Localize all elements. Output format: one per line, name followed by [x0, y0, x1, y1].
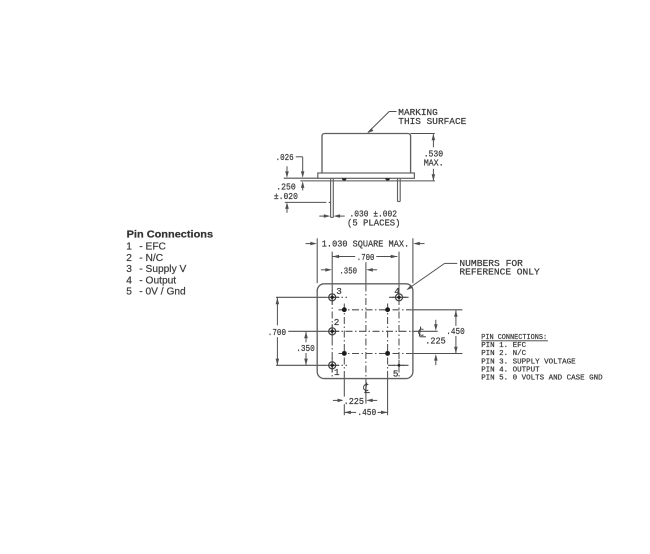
- svg-text:4: 4: [126, 275, 132, 286]
- svg-text:.225: .225: [344, 396, 364, 407]
- svg-text:MAX.: MAX.: [424, 158, 444, 169]
- svg-text:.026: .026: [276, 152, 294, 163]
- svg-text:5: 5: [393, 368, 399, 379]
- svg-text:3: 3: [126, 264, 132, 275]
- svg-text:.700: .700: [268, 327, 286, 338]
- svg-text:THIS SURFACE: THIS SURFACE: [398, 116, 466, 127]
- svg-text:Pin Connections: Pin Connections: [127, 230, 214, 241]
- svg-text:PIN 4. OUTPUT: PIN 4. OUTPUT: [481, 366, 540, 374]
- svg-text:.450: .450: [446, 326, 464, 337]
- svg-text:.350: .350: [339, 265, 357, 276]
- svg-text:5: 5: [126, 287, 132, 298]
- svg-text:- 0V / Gnd: - 0V / Gnd: [139, 287, 186, 298]
- svg-text:- Output: - Output: [139, 275, 176, 286]
- svg-text:- N/C: - N/C: [139, 253, 163, 264]
- svg-text:PIN 5. 0 VOLTS AND CASE GND: PIN 5. 0 VOLTS AND CASE GND: [481, 375, 603, 383]
- svg-text:REFERENCE ONLY: REFERENCE ONLY: [459, 267, 540, 278]
- svg-text:2: 2: [334, 317, 340, 328]
- svg-text:- Supply V: - Supply V: [139, 264, 186, 275]
- svg-text:1: 1: [334, 367, 340, 378]
- svg-text:4: 4: [394, 286, 400, 297]
- svg-text:.700: .700: [357, 252, 375, 263]
- svg-text:.350: .350: [296, 343, 315, 354]
- svg-text:3: 3: [336, 286, 342, 297]
- svg-text:- EFC: - EFC: [139, 242, 166, 253]
- svg-text:(5 PLACES): (5 PLACES): [347, 218, 401, 229]
- svg-text:PIN 2. N/C: PIN 2. N/C: [481, 350, 526, 358]
- svg-text:2: 2: [126, 253, 132, 264]
- svg-text:1: 1: [126, 242, 132, 253]
- svg-text:PIN 3. SUPPLY VOLTAGE: PIN 3. SUPPLY VOLTAGE: [481, 358, 576, 366]
- svg-text:.225: .225: [425, 336, 445, 347]
- svg-text:.450: .450: [357, 407, 376, 418]
- svg-text:±.020: ±.020: [274, 191, 298, 202]
- svg-text:PIN 1. EFC: PIN 1. EFC: [481, 342, 526, 350]
- svg-text:1.030 SQUARE MAX.: 1.030 SQUARE MAX.: [322, 239, 409, 250]
